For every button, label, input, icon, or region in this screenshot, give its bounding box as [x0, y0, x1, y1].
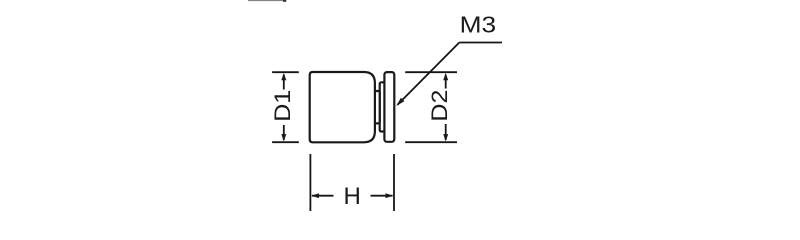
D2 dimension line upper segment — [445, 75, 447, 89]
D2 arrowhead up — [443, 73, 448, 80]
knob body — [310, 72, 375, 142]
H extension line left — [309, 154, 311, 211]
stray dark dot at right end of clipped line — [283, 0, 286, 2]
H dimension line left segment — [312, 195, 334, 197]
D1 extension line bottom — [272, 141, 299, 143]
stray clipped gray line at top edge — [248, 0, 286, 2]
D1 dimension line upper segment — [283, 75, 285, 90]
svg-text:D1: D1 — [270, 90, 295, 122]
M3 leader horizontal underline — [459, 42, 502, 44]
D1 extension line top — [272, 71, 299, 73]
H arrowhead right — [386, 193, 394, 198]
D1 arrowhead up — [281, 73, 286, 80]
D2 dimension line lower segment — [445, 124, 447, 140]
D1 dimension line lower segment — [283, 125, 285, 140]
svg-text:H: H — [344, 183, 361, 210]
M3 leader arrowhead — [396, 98, 404, 106]
svg-text:M3: M3 — [460, 11, 497, 37]
H extension line right — [393, 154, 395, 211]
D1 arrowhead down — [281, 134, 286, 141]
neck disc 2 — [380, 82, 385, 131]
flange (rightmost disc) — [384, 72, 394, 142]
H dimension line right segment — [371, 195, 393, 197]
D2 arrowhead down — [443, 134, 448, 141]
D2 extension line top — [405, 71, 457, 73]
neck disc 1 — [375, 91, 380, 123]
svg-text:D2: D2 — [427, 90, 452, 122]
D2 extension line bottom — [405, 141, 457, 143]
M3 leader diagonal — [398, 43, 460, 105]
H arrowhead left — [311, 193, 319, 198]
